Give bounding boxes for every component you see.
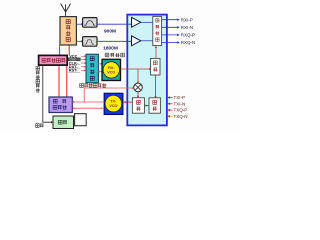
wire filter2 to IC LNA2 [97, 40, 132, 42]
label PLL loop (suo xiang huan lu) [105, 53, 124, 57]
svg-text:VCO: VCO [107, 70, 115, 74]
svg-text:RXI-N: RXI-N [181, 25, 193, 30]
wire control pin 1 to synthesizer [81, 55, 86, 57]
wire RX output 4 [161, 41, 180, 43]
TX coupler box (fa she hu gan qi) [39, 55, 68, 65]
wire control pin 5 to synthesizer [81, 70, 86, 72]
svg-text:TXQ-N: TXQ-N [174, 114, 188, 119]
label TX frequency sampling (fa she pin lv qu yang) [80, 83, 106, 87]
wire TX-VCO to PA (band 1) [73, 101, 105, 103]
pin RST [68, 68, 80, 73]
wire RX output 2 [161, 26, 180, 28]
wire control pin 3 to synthesizer [81, 62, 86, 64]
modulator box (tiao zhi) [149, 98, 160, 113]
wire RX output 3 [161, 34, 180, 36]
wire TX input 4 [168, 115, 173, 117]
svg-text:VCO: VCO [109, 104, 117, 108]
wire TX path 1 lower (coupler to PA) [58, 65, 60, 97]
wire RX-VCO to divider [121, 68, 152, 70]
wire filter1 to IC LNA1 [97, 23, 132, 25]
svg-text:RXI-P: RXI-P [181, 17, 193, 22]
wire synthesizer to RX-VCO [98, 63, 102, 65]
wire TX path 1 upper (switch to coupler) [59, 45, 61, 55]
svg-text:RX-: RX- [108, 66, 115, 70]
label sampling (qu yang) [36, 124, 44, 128]
antenna switch box (tian xian kai guan) [60, 17, 76, 45]
RF IC U1 (receive/transmit transceiver) [127, 15, 167, 126]
pin OSC [68, 57, 80, 61]
svg-text:RXQ-P: RXQ-P [181, 33, 195, 38]
wire power control to PA (loop) [75, 114, 87, 126]
RX SAW filter F2 (1800M) [83, 37, 97, 47]
svg-text:RXQ-N: RXQ-N [181, 40, 196, 45]
wire control pin 2 to synthesizer [81, 59, 86, 61]
wire divider to modulator [154, 75, 156, 98]
pin CLK [68, 60, 80, 65]
receive demodulator box (jie shou jie tiao) [153, 16, 162, 45]
RX-VCO module [102, 59, 121, 80]
svg-text:TXI-P: TXI-P [174, 95, 186, 100]
wire switch to filter2 (1800M) [77, 40, 85, 42]
wire phase detector to TX-VCO [123, 101, 132, 103]
wire switch to filter1 (900M) [77, 23, 85, 25]
wire TX-VCO to PA (band 2) [73, 107, 105, 109]
wire mixer to phase detector [137, 92, 139, 98]
wire TX path 2 lower (coupler to PA) [66, 65, 68, 97]
wire LNA1 to demodulator [141, 21, 154, 23]
wire branch RX-VCO to mixer [137, 69, 139, 84]
svg-text:900M: 900M [104, 28, 116, 34]
LNA amplifier A2 [132, 36, 141, 46]
wire RX output 1 [161, 19, 180, 21]
wire control pin 4 to synthesizer [81, 66, 86, 68]
wire modulator to phase detector [144, 104, 149, 106]
svg-text:TX-: TX- [110, 100, 117, 104]
antenna [61, 4, 71, 17]
wire divider to demodulator [155, 46, 157, 59]
power amplifier PA (gong lv fang da qi) [49, 97, 72, 113]
wire TX input 1 [168, 96, 173, 98]
svg-text:1800M: 1800M [103, 46, 118, 52]
wire LNA2 to demodulator [141, 40, 154, 42]
wire TX input 2 [168, 103, 173, 105]
TX-VCO module [104, 93, 123, 114]
svg-text:TXI-N: TXI-N [174, 101, 186, 106]
label power sampling signal (vertical) [36, 67, 40, 93]
power control box (gong kong) [53, 116, 74, 129]
svg-text:TXQ-P: TXQ-P [174, 108, 188, 113]
RX SAW filter F1 (900M) [83, 18, 97, 28]
wire power sampling (coupler to power control) [43, 65, 53, 123]
wire TX input 3 [168, 109, 173, 111]
mixer (frequency comparison) [134, 83, 143, 92]
frequency synthesizer box (pin lv he cheng) [86, 54, 98, 83]
LNA amplifier A1 [132, 17, 141, 27]
wire RX-VCO feedback to synthesizer [98, 70, 102, 72]
wire TX path 2 upper (switch to coupler) [68, 45, 70, 55]
divider box (fen pin) [151, 58, 160, 75]
pin DAT [68, 64, 80, 69]
wire TX frequency sampling loop [84, 87, 134, 102]
phase detector box (jian xiang) [132, 98, 144, 113]
